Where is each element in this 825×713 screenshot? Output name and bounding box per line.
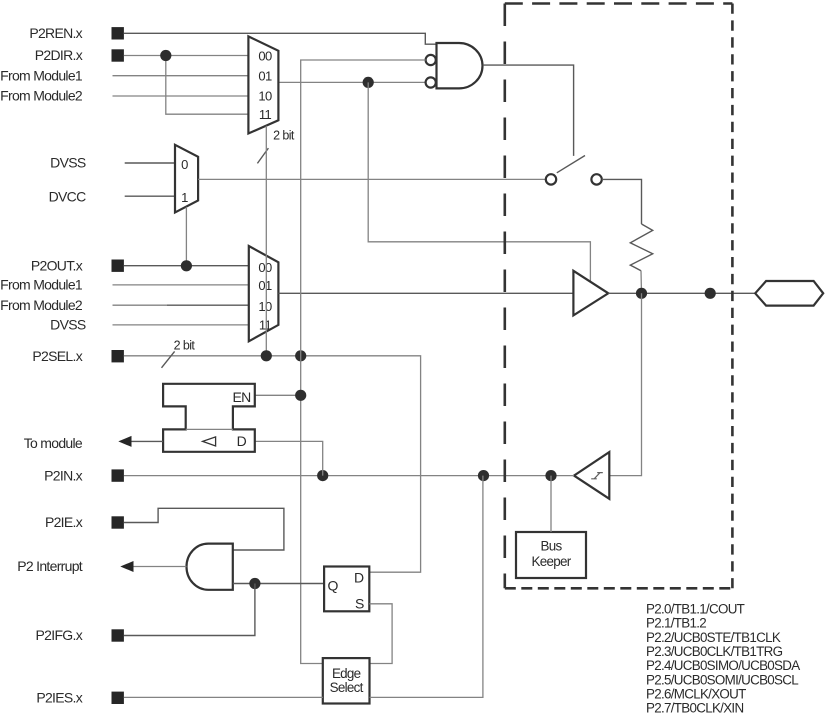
switch S1 right contact xyxy=(591,174,601,184)
svg-text:P2.3/UCB0CLK/TB1TRG: P2.3/UCB0CLK/TB1TRG xyxy=(646,644,783,659)
svg-text:Edge: Edge xyxy=(332,666,361,681)
svg-text:00: 00 xyxy=(258,260,272,275)
svg-text:Bus: Bus xyxy=(541,538,563,553)
svg-text:S: S xyxy=(355,596,364,612)
svg-text:01: 01 xyxy=(258,69,272,84)
svg-text:P2.6/MCLK/XOUT: P2.6/MCLK/XOUT xyxy=(646,686,746,701)
svg-text:DVCC: DVCC xyxy=(49,188,86,204)
svg-text:From Module1: From Module1 xyxy=(0,67,83,83)
wire switch S1 to resistor R1 xyxy=(602,179,642,224)
wire From Module2 to mux M1 input 10 xyxy=(113,95,249,97)
wire FF1 S to Edge Select xyxy=(369,604,392,664)
P2IES.x input square xyxy=(112,692,124,704)
svg-text:Q: Q xyxy=(328,578,339,594)
svg-text:P2.2/UCB0STE/TB1CLK: P2.2/UCB0STE/TB1CLK xyxy=(646,630,781,645)
wire Edge Select to P2IN junction xyxy=(370,476,483,698)
P2REN.x input square xyxy=(112,27,124,39)
wire FF1 Q to U4 input xyxy=(233,583,324,585)
wire From Module1 to mux M1 input 01 xyxy=(113,75,249,77)
svg-text:2 bit: 2 bit xyxy=(273,129,295,143)
Bus Keeper box B1 xyxy=(516,532,586,578)
P2IFG.x input square xyxy=(112,629,124,641)
svg-text:From Module1: From Module1 xyxy=(0,277,83,293)
wire From Module2 to mux M2 input 10 (light part) xyxy=(113,304,168,306)
mux M2 output select xyxy=(249,246,279,341)
svg-text:P2.1/TB1.2: P2.1/TB1.2 xyxy=(646,616,706,631)
wire From Module2 to mux M2 input 10 (dark part) xyxy=(167,304,249,306)
latch clock triangle xyxy=(203,437,216,446)
junction edge select / P2IN xyxy=(478,470,489,481)
wire R1 to output node xyxy=(640,271,643,294)
pad P2.x hexagon xyxy=(755,281,823,306)
svg-text:P2.4/UCB0SIMO/UCB0SDA: P2.4/UCB0SIMO/UCB0SDA xyxy=(646,658,800,673)
dashed device boundary left edge xyxy=(503,4,506,589)
svg-text:D: D xyxy=(354,570,364,586)
svg-text:11: 11 xyxy=(259,107,272,122)
wire EN to P2SEL branch xyxy=(255,394,301,396)
wire M2 output to buffer U2 xyxy=(278,292,573,294)
svg-text:Keeper: Keeper xyxy=(532,554,572,569)
svg-text:To module: To module xyxy=(24,435,83,451)
svg-text:11: 11 xyxy=(259,318,272,333)
AND gate U1 xyxy=(437,43,483,88)
svg-text:DVSS: DVSS xyxy=(50,155,86,171)
svg-text:P2.0/TB1.1/COUT: P2.0/TB1.1/COUT xyxy=(646,602,745,617)
U1 inverted input bubble pin 3 xyxy=(426,77,436,87)
svg-text:EN: EN xyxy=(232,389,250,405)
junction P2SEL to mux select xyxy=(261,350,272,361)
wire buffer enable (M1 output to U2 enable) xyxy=(368,82,590,281)
svg-text:Select: Select xyxy=(330,680,364,695)
wire U1 output to switch S1 control xyxy=(483,65,574,156)
dashed device boundary bottom edge xyxy=(505,587,733,590)
2-bit slash upper xyxy=(257,148,268,163)
svg-text:01: 01 xyxy=(258,278,272,293)
wire P2DIR.x to mux M1 input 00 xyxy=(124,55,248,57)
junction P2SEL to AND/EN branch xyxy=(295,350,306,361)
dashed device boundary right edge xyxy=(731,4,734,589)
flip-flop FF1 xyxy=(324,567,369,612)
wire P2SEL.x to flip-flop FF1 D input xyxy=(124,356,421,572)
mux M1 direction/00-11 select xyxy=(248,36,278,133)
latch inner gray edge xyxy=(186,428,233,430)
wire U4 output to P2 Interrupt arrow xyxy=(133,566,187,568)
interrupt AND gate U4 xyxy=(187,544,233,590)
input latch L1 xyxy=(163,384,255,452)
svg-text:P2IFG.x: P2IFG.x xyxy=(36,627,83,643)
wire output node to schmitt U3 input xyxy=(609,293,641,475)
resistor R1 xyxy=(630,224,652,271)
P2IN.x input square xyxy=(112,469,124,481)
svg-text:10: 10 xyxy=(258,89,272,104)
svg-text:0: 0 xyxy=(181,157,188,172)
wire M3 select from P2OUT junction xyxy=(185,207,187,266)
wire P2DIR branch to mux M1 input 11 xyxy=(166,56,249,115)
wire P2IFG.x xyxy=(124,584,255,636)
wire Bus Keeper to P2IN junction xyxy=(550,476,552,532)
arrowhead P2 Interrupt xyxy=(120,561,133,572)
svg-text:P2IE.x: P2IE.x xyxy=(45,514,83,530)
junction P2OUT / M3 select xyxy=(181,260,192,271)
arrowhead To module xyxy=(118,436,131,447)
svg-text:From Module2: From Module2 xyxy=(0,297,83,313)
svg-text:P2REN.x: P2REN.x xyxy=(29,25,82,41)
dashed device boundary top edge xyxy=(505,2,733,5)
svg-text:00: 00 xyxy=(258,48,272,63)
select line 2-bit for M1/M2 xyxy=(265,126,267,356)
svg-text:10: 10 xyxy=(258,299,272,314)
schmitt trigger U3 xyxy=(574,452,609,499)
svg-text:1: 1 xyxy=(181,190,188,205)
junction latch D / P2IN xyxy=(317,470,328,481)
junction bus keeper / P2IN xyxy=(545,470,556,481)
Edge Select box B2 xyxy=(323,658,370,703)
wire M3 output to switch S1 xyxy=(198,178,546,180)
svg-text:P2SEL.x: P2SEL.x xyxy=(32,348,82,364)
svg-text:P2.7/TB0CLK/XIN: P2.7/TB0CLK/XIN xyxy=(646,701,743,713)
U1 inverted input bubble pin 2 xyxy=(426,55,436,65)
wire latch to To module arrow xyxy=(131,440,164,442)
mux M3 pull-up/pull-down select xyxy=(175,145,198,213)
P2DIR.x input square xyxy=(112,49,124,61)
wire P2IES.x to Edge Select xyxy=(124,696,323,698)
junction M1 output / buffer enable xyxy=(363,77,374,88)
switch S1 lever xyxy=(557,156,585,173)
wire DVSS to mux M3 xyxy=(125,162,175,164)
wire DVCC to mux M3 xyxy=(125,195,175,197)
svg-text:D: D xyxy=(237,433,247,449)
P2IE.x input square xyxy=(112,516,124,528)
svg-text:P2IES.x: P2IES.x xyxy=(36,690,82,706)
junction P2DIR branch xyxy=(160,50,171,61)
svg-text:P2DIR.x: P2DIR.x xyxy=(35,47,83,63)
wire P2SEL branch to AND U1 pin 2 and Edge Select xyxy=(301,60,426,664)
svg-text:P2.5/UCB0SOMI/UCB0SCL: P2.5/UCB0SOMI/UCB0SCL xyxy=(646,672,798,687)
wire P2OUT.x to mux M2 input 00 xyxy=(124,265,249,267)
svg-text:P2OUT.x: P2OUT.x xyxy=(31,257,83,273)
svg-text:P2 Interrupt: P2 Interrupt xyxy=(17,558,83,574)
wire From Module1 to mux M2 input 01 xyxy=(113,284,249,286)
wire mux M1 output to AND gate U1 pin 3 xyxy=(278,81,425,83)
junction pad line xyxy=(705,288,716,299)
P2OUT.x input square xyxy=(112,260,124,272)
wire P2IE.x to interrupt gate U4 xyxy=(124,508,284,550)
junction Q / P2IFG xyxy=(249,578,260,589)
svg-text:DVSS: DVSS xyxy=(50,317,86,333)
switch S1 left contact xyxy=(546,174,556,184)
wire latch D to P2IN junction xyxy=(255,441,323,475)
schmitt hysteresis glyph xyxy=(591,473,603,479)
junction output node resistor xyxy=(636,288,647,299)
wire P2REN.x to AND gate U1 pin 1 xyxy=(124,33,437,44)
wire P2IN line xyxy=(124,475,574,477)
wire buffer output to pad xyxy=(608,292,755,294)
svg-text:P2IN.x: P2IN.x xyxy=(44,467,83,483)
P2SEL.x input square xyxy=(112,350,124,362)
2-bit slash lower xyxy=(162,351,175,367)
svg-text:2 bit: 2 bit xyxy=(174,338,196,352)
wire DVSS to mux M2 input 11 xyxy=(113,324,249,326)
junction EN xyxy=(295,390,306,401)
output buffer U2 xyxy=(573,271,608,316)
svg-text:From Module2: From Module2 xyxy=(0,88,83,104)
